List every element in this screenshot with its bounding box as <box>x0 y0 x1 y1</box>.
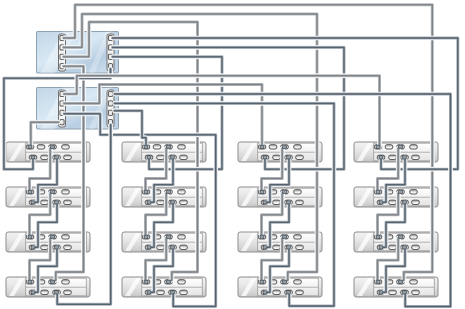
cable connector at shelf r1c4 bottom port1 <box>379 156 383 159</box>
cable connector at shelf r4c4 top port3 <box>399 280 403 283</box>
cable connector at shelf r1c1 top port1 <box>28 145 32 148</box>
cable connector at shelf r2c1 top port3 <box>51 190 55 193</box>
wire ctrl2 left p4 to shelf1 col1 top port1 <box>31 122 59 146</box>
wire chain col2 shelf1 bottom port3 to shelf2 bottom port1 <box>149 157 173 202</box>
cable connector at shelf r1c1 top port3 <box>51 145 55 148</box>
cable connector at shelf r1c4 bottom port3 <box>403 156 407 159</box>
disk shelf row 4 column 2 <box>122 277 206 297</box>
disk shelf row 3 column 4 <box>354 232 438 252</box>
cable connector at shelf r1c3 top port1 <box>260 145 264 148</box>
cable connector at shelf r4c3 top port3 <box>283 280 287 283</box>
wire chain col2 shelf1 top port3 to shelf2 top port1 <box>146 147 169 192</box>
cable connector at shelf r2c2 bottom port3 <box>171 201 175 204</box>
wire chain col2 shelf3 bottom port3 to shelf4 bottom port1 <box>149 247 173 292</box>
disk shelf row 3 column 2 <box>122 232 206 252</box>
disk shelf row 4 column 1 <box>6 277 90 297</box>
cable connector at shelf r3c4 top port3 <box>399 235 403 238</box>
cable connector at shelf r3c2 top port1 <box>144 235 148 238</box>
cable connector at shelf r1c2 top port3 <box>167 145 171 148</box>
cable connector at shelf r1c1 bottom port3 <box>55 156 59 159</box>
cable connector at shelf r3c4 top port1 <box>376 235 380 238</box>
wire chain col4 shelf1 bottom port3 to shelf2 bottom port1 <box>381 157 405 202</box>
controller 2 left HBA strip <box>59 90 66 127</box>
cable connector at shelf r2c2 bottom port1 <box>147 201 151 204</box>
cable connector at shelf r1c2 top port1 <box>144 145 148 148</box>
wire chain col1 shelf2 bottom port3 to shelf3 bottom port1 <box>33 202 57 247</box>
cable connector at shelf r3c3 top port3 <box>283 235 287 238</box>
wire ctrl2 right p1 to shelf4 col4 bottom port3 return <box>115 94 451 307</box>
cable connector at shelf r4c3 bottom port1 <box>263 291 267 294</box>
disk shelf row 1 column 4 <box>354 142 438 162</box>
wire ctrl1 right p2 to shelf1 col3 bottom port1 <box>113 47 345 169</box>
cable connector at shelf r2c1 bottom port1 <box>31 201 35 204</box>
cable connector at shelf r4c2 top port3 <box>167 280 171 283</box>
cable connector at shelf r3c3 top port1 <box>260 235 264 238</box>
cable connector at shelf r2c1 top port1 <box>28 190 32 193</box>
cable connector at shelf r2c4 top port1 <box>376 190 380 193</box>
disk shelf row 2 column 1 <box>6 187 90 207</box>
cable connector at shelf r4c4 top port1 <box>376 280 380 283</box>
cable connector at shelf r1c4 top port1 <box>376 145 380 148</box>
cable connector at shelf r1c3 top port3 <box>283 145 287 148</box>
wire chain col1 shelf1 bottom port3 to shelf2 bottom port1 <box>33 157 57 202</box>
wire chain col4 shelf2 top port3 to shelf3 top port1 <box>378 192 401 237</box>
controller 2 chassis <box>37 88 119 130</box>
cable connector at shelf r1c3 bottom port3 <box>287 156 291 159</box>
wire chain col4 shelf1 top port3 to shelf2 top port1 <box>378 147 401 192</box>
cable connector at shelf r4c3 top port1 <box>260 280 264 283</box>
cable connector at shelf r4c2 top port1 <box>144 280 148 283</box>
cable connector at shelf r4c1 top port1 <box>28 280 32 283</box>
wire chain col3 shelf1 top port3 to shelf2 top port1 <box>262 147 285 192</box>
disk shelf row 1 column 2 <box>122 142 206 162</box>
cable connector at shelf r4c4 bottom port1 <box>379 291 383 294</box>
controller 1 left HBA strip <box>59 34 66 71</box>
wire chain col2 shelf3 top port3 to shelf4 top port1 <box>146 237 169 282</box>
cable connector at shelf r3c2 bottom port3 <box>171 246 175 249</box>
disk shelf row 2 column 4 <box>354 187 438 207</box>
wire ctrl1 right p4 to shelf1 col1 bottom port1 <box>4 69 111 170</box>
cable connector at shelf r2c3 top port1 <box>260 190 264 193</box>
cable connector at shelf r1c2 bottom port3 <box>171 156 175 159</box>
cable connector at shelf r3c2 top port3 <box>167 235 171 238</box>
cable connector at shelf r2c3 top port3 <box>283 190 287 193</box>
cable connector at shelf r1c2 bottom port1 <box>147 156 151 159</box>
controller 2 right HBA strip <box>107 90 114 127</box>
wire chain col2 shelf2 top port3 to shelf3 top port1 <box>146 192 169 237</box>
cable connector at shelf r4c1 top port3 <box>51 280 55 283</box>
wire ctrl2 left p1 to shelf1 col4 top port1 <box>64 76 380 147</box>
cable connector at shelf r2c4 bottom port3 <box>403 201 407 204</box>
cable connector at shelf r4c1 bottom port3 <box>55 291 59 294</box>
wire ctrl1 right p3 to shelf1 col2 bottom port1 <box>113 57 223 169</box>
wire ctrl1 left p3 to shelf4 col2 top port3 <box>64 22 198 282</box>
cable connector at shelf r3c4 bottom port1 <box>379 246 383 249</box>
cable connector at shelf r3c4 bottom port3 <box>403 246 407 249</box>
cable connector at shelf r2c3 bottom port3 <box>287 201 291 204</box>
cable connector at shelf r3c3 bottom port3 <box>287 246 291 249</box>
cable connector at shelf r4c3 bottom port3 <box>287 291 291 294</box>
cable connector at shelf r4c4 bottom port3 <box>403 291 407 294</box>
wire chain col3 shelf3 bottom port3 to shelf4 bottom port1 <box>265 247 289 292</box>
disk shelf row 1 column 1 <box>6 142 90 162</box>
cable connector at shelf r2c4 bottom port1 <box>379 201 383 204</box>
wire chain col1 shelf2 top port3 to shelf3 top port1 <box>30 192 53 237</box>
cable connector at shelf r4c2 bottom port1 <box>147 291 151 294</box>
cable connector at shelf r1c1 bottom port1 <box>31 156 35 159</box>
disk shelf row 2 column 3 <box>238 187 322 207</box>
wire ctrl1 left p1 to shelf4 col4 top port3 <box>64 5 433 282</box>
wire chain col4 shelf3 top port3 to shelf4 top port1 <box>378 237 401 282</box>
wire chain col4 shelf3 bottom port3 to shelf4 bottom port1 <box>381 247 405 292</box>
wire ctrl2 right p3 to shelf1 col2 top port1 <box>115 111 147 147</box>
cable connector at shelf r2c3 bottom port1 <box>263 201 267 204</box>
cable connector at shelf r3c1 top port3 <box>51 235 55 238</box>
disk shelf row 4 column 3 <box>238 277 322 297</box>
cable connector at shelf r3c1 bottom port1 <box>31 246 35 249</box>
wire chain col3 shelf3 top port3 to shelf4 top port1 <box>262 237 285 282</box>
disk shelf row 1 column 3 <box>238 142 322 162</box>
wire ctrl2 right p2 to shelf4 col3 bottom port3 return <box>115 103 335 306</box>
wire chain col4 shelf2 bottom port3 to shelf3 bottom port1 <box>381 202 405 247</box>
wire chain col3 shelf2 bottom port3 to shelf3 bottom port1 <box>265 202 289 247</box>
wire chain col2 shelf2 bottom port3 to shelf3 bottom port1 <box>149 202 173 247</box>
wire ctrl2 right p4 to shelf4 col1 bottom port3 return <box>57 125 110 305</box>
disk shelf row 4 column 4 <box>354 277 438 297</box>
wire ctrl2 left p3 to shelf4 col2 bottom port3 return <box>64 114 216 307</box>
wire chain col3 shelf1 bottom port3 to shelf2 bottom port1 <box>265 157 289 202</box>
disk shelf row 3 column 3 <box>238 232 322 252</box>
cable connector at shelf r2c2 top port3 <box>167 190 171 193</box>
wire chain col1 shelf3 top port3 to shelf4 top port1 <box>30 237 53 282</box>
cable connector at shelf r2c1 bottom port3 <box>55 201 59 204</box>
cable connector at shelf r3c1 top port1 <box>28 235 32 238</box>
cable connector at shelf r3c3 bottom port1 <box>263 246 267 249</box>
cable connector at shelf r2c4 top port3 <box>399 190 403 193</box>
wire ctrl1 left p4 to shelf4 col1 top port3 <box>53 66 83 281</box>
disk shelf row 2 column 2 <box>122 187 206 207</box>
wire chain col1 shelf3 bottom port3 to shelf4 bottom port1 <box>33 247 57 292</box>
controller 1 chassis <box>37 32 119 74</box>
controller 1 right HBA strip <box>107 34 114 71</box>
cable connector at shelf r4c1 bottom port1 <box>31 291 35 294</box>
cable connector at shelf r3c1 bottom port3 <box>55 246 59 249</box>
cable connector at shelf r1c3 bottom port1 <box>263 156 267 159</box>
wire chain col3 shelf2 top port3 to shelf3 top port1 <box>262 192 285 237</box>
wire chain col1 shelf1 top port3 to shelf2 top port1 <box>30 147 53 192</box>
disk shelf row 3 column 1 <box>6 232 90 252</box>
wire ctrl2 left p2 to shelf1 col3 top port1 <box>64 85 262 147</box>
cable connector at shelf r1c4 top port3 <box>399 145 403 148</box>
wire ctrl1 left p2 to shelf4 col3 top port3 <box>64 14 318 282</box>
cable connector at shelf r4c2 bottom port3 <box>171 291 175 294</box>
cable connector at shelf r2c2 top port1 <box>144 190 148 193</box>
cable connector at shelf r3c2 bottom port1 <box>147 246 151 249</box>
wire ctrl1 right p1 to shelf1 col4 bottom port1 <box>113 38 458 169</box>
